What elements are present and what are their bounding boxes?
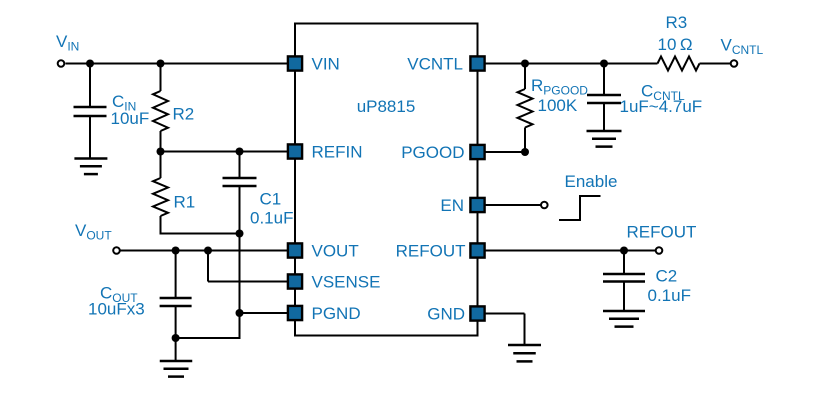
wire bottom ground bus bbox=[176, 337, 241, 339]
svg-text:C2: C2 bbox=[656, 267, 678, 286]
node EN terminal (open terminal) bbox=[541, 202, 548, 209]
node RPGOOD/PGOOD junction (junction dot) bbox=[521, 148, 529, 156]
svg-text:C1: C1 bbox=[260, 190, 282, 209]
wire VSENSE horizontal bbox=[208, 281, 287, 283]
IC pin EN bbox=[470, 198, 484, 212]
node VCNTL/CCNTL junction (junction dot) bbox=[600, 60, 608, 68]
node VOUT/COUT junction (junction dot) bbox=[172, 247, 180, 255]
wire COUT bottom to gnd bbox=[175, 338, 177, 361]
resistor R1 bbox=[153, 152, 168, 234]
wire VIN rail bbox=[66, 63, 288, 65]
svg-text:VOUT: VOUT bbox=[75, 221, 112, 243]
svg-text:VOUT: VOUT bbox=[312, 242, 359, 261]
ground bbox=[587, 131, 622, 147]
svg-text:10 Ω: 10 Ω bbox=[658, 35, 693, 54]
svg-text:VCNTL: VCNTL bbox=[721, 36, 764, 58]
node REFOUT/C2 junction (junction dot) bbox=[620, 247, 628, 255]
wire GND wire vertical bbox=[524, 314, 526, 346]
wire VCNTL rail bbox=[486, 63, 658, 65]
wire PGOOD wire bbox=[486, 151, 526, 153]
node VIN/R2 junction (junction dot) bbox=[157, 60, 165, 68]
svg-text:0.1uF: 0.1uF bbox=[648, 286, 691, 305]
svg-text:100K: 100K bbox=[538, 96, 578, 115]
node VOUT terminal (open terminal) bbox=[113, 247, 120, 254]
svg-text:R2: R2 bbox=[173, 105, 195, 124]
node R2/R1/REFIN junction (junction dot) bbox=[157, 148, 165, 156]
svg-text:REFIN: REFIN bbox=[312, 143, 363, 162]
node VOUT/VSENSE junction (junction dot) bbox=[204, 247, 212, 255]
resistor RPGOOD bbox=[518, 64, 533, 153]
IC pin PGOOD bbox=[470, 145, 484, 159]
node COUT/ground-bus junction (junction dot) bbox=[172, 334, 180, 342]
wire GND wire horizontal bbox=[486, 313, 525, 315]
IC pin VCNTL bbox=[470, 56, 484, 70]
svg-text:Enable: Enable bbox=[565, 172, 618, 191]
svg-text:1uF~4.7uF: 1uF~4.7uF bbox=[620, 97, 703, 116]
wire R3 to VCNTL terminal bbox=[700, 63, 731, 65]
IC pin PGND bbox=[288, 306, 302, 320]
capacitor C1 bbox=[223, 152, 257, 187]
IC pin VIN bbox=[288, 56, 302, 70]
IC pin REFIN bbox=[288, 144, 302, 158]
ground bbox=[603, 311, 645, 327]
Enable rising-edge waveform symbol bbox=[559, 196, 601, 220]
wire R1 bottom horizontal bbox=[160, 233, 240, 235]
svg-text:VCNTL: VCNTL bbox=[407, 55, 463, 74]
wire REFOUT wire bbox=[486, 250, 656, 252]
svg-text:VIN: VIN bbox=[56, 32, 79, 54]
wire PGND to node bbox=[240, 312, 288, 314]
svg-text:R3: R3 bbox=[666, 13, 688, 32]
svg-text:GND: GND bbox=[427, 305, 465, 324]
capacitor CIN bbox=[74, 107, 107, 159]
IC pin REFOUT bbox=[470, 243, 484, 257]
node VCNTL terminal (open terminal) bbox=[731, 60, 738, 67]
wire CIN top lead bbox=[89, 64, 91, 108]
node REFIN/C1 junction (junction dot) bbox=[236, 148, 244, 156]
svg-text:EN: EN bbox=[440, 196, 464, 215]
node VIN/CIN junction (junction dot) bbox=[86, 60, 94, 68]
wire VOUT rail bbox=[120, 250, 287, 252]
IC pin GND bbox=[470, 306, 484, 320]
ground bbox=[160, 361, 193, 377]
IC pin VOUT bbox=[288, 243, 302, 257]
svg-text:0.1uF: 0.1uF bbox=[250, 209, 293, 228]
ground bbox=[74, 159, 107, 175]
svg-text:PGOOD: PGOOD bbox=[401, 143, 464, 162]
node R1/C1 junction (junction dot) bbox=[236, 230, 244, 238]
node VCNTL/RPGOOD junction (junction dot) bbox=[521, 60, 529, 68]
capacitor COUT bbox=[160, 251, 192, 339]
op-amp/regulator IC U1 uP8815 body bbox=[295, 24, 478, 336]
resistor R2 bbox=[153, 64, 168, 152]
capacitor C2 bbox=[603, 251, 645, 312]
svg-text:VIN: VIN bbox=[312, 55, 340, 74]
svg-text:VSENSE: VSENSE bbox=[312, 273, 381, 292]
node REFOUT terminal (open terminal) bbox=[656, 247, 663, 254]
wire VSENSE vertical bbox=[207, 251, 209, 282]
ground bbox=[508, 345, 541, 361]
svg-text:RPGOOD: RPGOOD bbox=[531, 76, 588, 98]
wire C1/PGND vertical bbox=[239, 186, 241, 338]
IC pin VSENSE bbox=[288, 274, 302, 288]
svg-text:PGND: PGND bbox=[312, 304, 361, 323]
node VIN terminal (open terminal) bbox=[58, 60, 65, 67]
svg-text:REFOUT: REFOUT bbox=[627, 223, 697, 242]
svg-text:uP8815: uP8815 bbox=[357, 97, 416, 116]
resistor R3 bbox=[658, 57, 700, 71]
svg-text:R1: R1 bbox=[174, 193, 196, 212]
wire EN wire bbox=[486, 204, 541, 206]
node PGND junction (junction dot) bbox=[236, 309, 244, 317]
wire R2 net to REFIN bbox=[161, 151, 288, 153]
svg-text:10uFx3: 10uFx3 bbox=[88, 300, 145, 319]
svg-text:10uF: 10uF bbox=[111, 109, 150, 128]
svg-text:REFOUT: REFOUT bbox=[396, 242, 466, 261]
capacitor CCNTL bbox=[587, 64, 621, 132]
